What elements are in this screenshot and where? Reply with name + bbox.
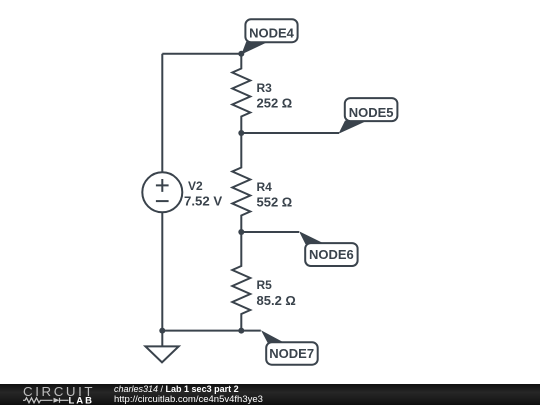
CircuitLab logo (0, 381, 100, 405)
node ground junction (159, 328, 165, 334)
svg-text:R5: R5 (257, 278, 273, 292)
resistor R4 (232, 133, 250, 232)
footer title text (114, 384, 263, 405)
ground (145, 331, 178, 363)
node label NODE4 (241, 19, 297, 54)
footer bar (0, 384, 540, 405)
wire node5 stub (241, 132, 339, 134)
svg-text:552 Ω: 552 Ω (257, 194, 293, 209)
svg-text:V2: V2 (188, 179, 203, 193)
node NODE5 junction (238, 130, 244, 136)
svg-text:NODE6: NODE6 (309, 247, 354, 262)
wire left vertical top (161, 54, 163, 173)
svg-text:7.52 V: 7.52 V (184, 194, 222, 209)
wire top horizontal (162, 53, 241, 55)
resistor R3 (232, 54, 250, 133)
svg-text:LAB: LAB (69, 395, 95, 405)
node NODE6 junction (238, 229, 244, 235)
node NODE4 junction (238, 51, 244, 57)
svg-text:NODE5: NODE5 (349, 105, 394, 120)
svg-text:252 Ω: 252 Ω (257, 95, 293, 110)
wire node6 stub (241, 231, 299, 233)
wire bottom horizontal (162, 330, 260, 332)
node label NODE5 (339, 98, 398, 134)
voltage source V2 (142, 172, 182, 212)
svg-text:NODE4: NODE4 (249, 26, 295, 41)
svg-text:R4: R4 (257, 180, 273, 194)
node NODE7 junction (238, 328, 244, 334)
node label NODE6 (299, 231, 358, 266)
svg-text:R3: R3 (257, 81, 273, 95)
wire left vertical bottom (161, 212, 163, 330)
resistor R5 (232, 232, 250, 331)
svg-text:85.2 Ω: 85.2 Ω (257, 293, 296, 308)
node label NODE7 (261, 330, 318, 364)
svg-text:NODE7: NODE7 (269, 346, 314, 361)
